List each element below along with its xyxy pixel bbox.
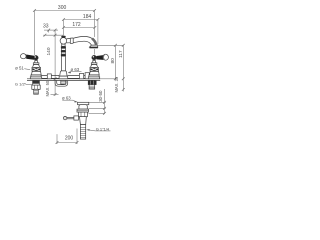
svg-text:117: 117 [118,50,124,58]
svg-text:300: 300 [58,5,67,11]
svg-text:ø 63: ø 63 [71,67,80,72]
svg-text:80: 80 [110,58,116,64]
svg-text:33: 33 [43,24,49,30]
svg-text:MAX. 35: MAX. 35 [114,76,119,92]
svg-text:ø 63: ø 63 [62,96,71,101]
svg-text:30-50: 30-50 [98,90,103,102]
svg-text:184: 184 [83,14,92,20]
svg-text:G 1/2": G 1/2" [15,82,27,87]
svg-text:140: 140 [46,47,52,55]
svg-text:ø 51: ø 51 [15,65,24,70]
svg-text:172: 172 [72,22,81,28]
svg-text:200: 200 [65,135,74,141]
svg-text:G 1"1/4: G 1"1/4 [96,126,110,131]
svg-text:MAX. 50: MAX. 50 [45,80,50,96]
